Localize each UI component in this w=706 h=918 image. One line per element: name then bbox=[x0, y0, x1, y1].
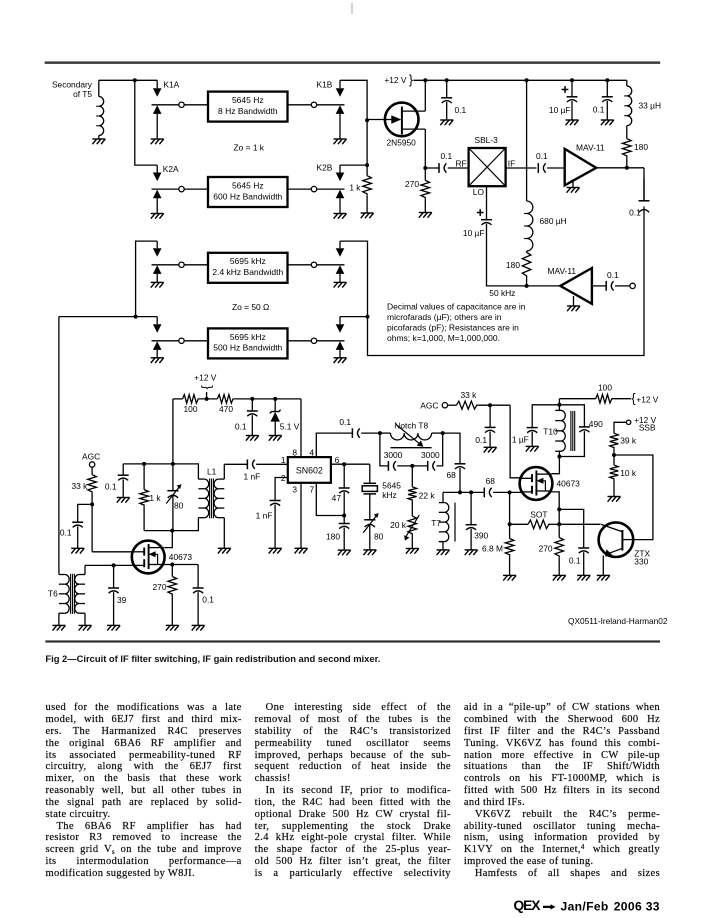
ground bbox=[151, 358, 164, 363]
wire collector bbox=[559, 523, 600, 525]
filter box 5645 Hz 600 Hz Bandwidth bbox=[208, 177, 288, 207]
wire pin7 bbox=[316, 483, 344, 516]
label ZTX bbox=[634, 548, 650, 558]
wire bbox=[448, 404, 457, 406]
resistor 1 k bbox=[363, 176, 372, 196]
wire source2 bbox=[551, 492, 559, 524]
capacitor 80 trimmer osc bbox=[363, 513, 379, 550]
wire bbox=[156, 165, 158, 172]
node bbox=[365, 163, 369, 167]
wire bbox=[572, 181, 574, 188]
label 33 k bbox=[71, 481, 88, 491]
wire drain to rail bbox=[424, 80, 426, 111]
wire IF line bbox=[506, 167, 537, 169]
wire bbox=[173, 398, 183, 400]
label AGC bbox=[82, 452, 100, 462]
node bbox=[525, 78, 529, 82]
svg-text:1: 1 bbox=[281, 455, 286, 465]
ground bbox=[334, 139, 347, 144]
ground bbox=[567, 306, 580, 311]
svg-text:MAV-11: MAV-11 bbox=[548, 266, 577, 276]
inductor notch T8 variable bbox=[391, 425, 432, 448]
wire bbox=[58, 317, 60, 574]
label LO bbox=[473, 187, 485, 197]
wire bbox=[446, 80, 448, 98]
capacitor 0.1 coupling bbox=[639, 178, 650, 212]
svg-text:SOT: SOT bbox=[530, 510, 547, 520]
label 180 bbox=[326, 531, 340, 541]
wire bbox=[224, 463, 247, 465]
node bbox=[445, 78, 449, 82]
wire bbox=[207, 392, 253, 411]
label 39 k bbox=[620, 435, 637, 445]
wire pin2 bbox=[275, 478, 288, 501]
label SBL-3 bbox=[475, 135, 499, 145]
pin label 8 bbox=[292, 447, 297, 457]
node bbox=[90, 502, 94, 506]
capacitor 0.1 vdd bbox=[247, 411, 258, 416]
wire bbox=[470, 492, 472, 524]
ground bbox=[192, 625, 205, 630]
capacitor 180 bbox=[339, 524, 350, 529]
pin label 3 bbox=[292, 485, 297, 495]
QEX logo bbox=[514, 898, 556, 913]
ground bbox=[334, 214, 347, 219]
capacitor 80 trimmer bbox=[166, 464, 181, 531]
wire bbox=[98, 80, 100, 96]
label MAV-11 bbox=[548, 266, 577, 276]
resistor 22 k bbox=[408, 487, 417, 501]
svg-text:80: 80 bbox=[374, 531, 384, 541]
svg-text:0.1: 0.1 bbox=[60, 527, 72, 537]
svg-text:Notch T8: Notch T8 bbox=[394, 420, 428, 430]
svg-text:8: 8 bbox=[292, 447, 297, 457]
node bbox=[205, 397, 209, 401]
node bbox=[366, 315, 370, 319]
wire tank bottom rail bbox=[144, 530, 199, 532]
ground bbox=[608, 497, 621, 502]
svg-text:7: 7 bbox=[310, 485, 315, 495]
label 20 k bbox=[390, 520, 407, 530]
transformer L1 bbox=[198, 464, 224, 548]
resistor 470 bbox=[217, 395, 234, 404]
capacitor 10 uF rail bbox=[562, 86, 578, 102]
ground bbox=[419, 213, 432, 218]
svg-text:20 k: 20 k bbox=[390, 520, 407, 530]
wire K1B feed bus bbox=[340, 80, 367, 175]
wire bbox=[432, 432, 443, 434]
label 10 k bbox=[620, 468, 637, 478]
label 47 bbox=[332, 493, 342, 503]
label 39 bbox=[117, 595, 127, 605]
svg-text:IF: IF bbox=[508, 158, 515, 168]
ground bbox=[440, 120, 453, 125]
wire bbox=[443, 491, 484, 493]
wire bbox=[627, 167, 644, 169]
wire LO bbox=[486, 186, 488, 220]
svg-text:600 Hz Bandwidth: 600 Hz Bandwidth bbox=[213, 191, 282, 201]
inductor T7 bbox=[439, 492, 455, 549]
svg-text:0.1: 0.1 bbox=[607, 270, 619, 280]
wire bbox=[184, 188, 208, 190]
label Notch T8 bbox=[394, 420, 428, 430]
svg-text:5.1 V: 5.1 V bbox=[280, 422, 300, 432]
resistor 270 source bbox=[168, 577, 177, 596]
svg-text:MAV-11: MAV-11 bbox=[576, 143, 605, 153]
node bbox=[311, 102, 316, 107]
relay contact row4 left fixed bbox=[152, 341, 179, 358]
label 470 bbox=[219, 404, 233, 414]
terminal AGC bbox=[89, 462, 94, 467]
wire bbox=[288, 104, 312, 106]
power +12 V right bbox=[631, 391, 658, 405]
label 40673 bbox=[557, 479, 581, 489]
wire bbox=[592, 285, 606, 287]
svg-text:33 µH: 33 µH bbox=[639, 100, 662, 110]
svg-text:LO: LO bbox=[473, 187, 485, 197]
wire pin4 bbox=[316, 433, 352, 457]
wire RF line bbox=[425, 167, 438, 169]
capacitor 39 bbox=[108, 588, 119, 593]
wire bbox=[411, 501, 413, 516]
ground bbox=[577, 575, 590, 580]
label 0.1 bbox=[202, 594, 214, 604]
label 0.1 bbox=[569, 556, 581, 566]
wire bbox=[613, 398, 631, 400]
node bbox=[458, 490, 462, 494]
label 0.1 bbox=[105, 481, 117, 491]
pin label 7 bbox=[310, 485, 315, 495]
svg-text:5695 kHz: 5695 kHz bbox=[230, 332, 266, 342]
terminal +12V SSB bbox=[626, 420, 630, 424]
wire bbox=[380, 432, 391, 434]
inductor T5 secondary bbox=[96, 97, 103, 136]
top registration tick bbox=[351, 3, 353, 14]
label 0.1 bbox=[339, 417, 351, 427]
svg-text:Zo = 50 Ω: Zo = 50 Ω bbox=[232, 302, 269, 312]
svg-text:+12 V: +12 V bbox=[194, 372, 217, 382]
wire bbox=[184, 264, 208, 266]
figure id QX0511-Ireland-Harman02 bbox=[568, 616, 668, 626]
resistor SOT bbox=[528, 520, 551, 529]
wire bbox=[613, 449, 615, 465]
svg-text:39: 39 bbox=[117, 595, 127, 605]
wire bbox=[397, 465, 427, 467]
svg-text:}: } bbox=[409, 73, 413, 87]
wire bbox=[343, 528, 345, 550]
node bbox=[179, 186, 184, 191]
node bbox=[142, 462, 146, 466]
svg-text:5645: 5645 bbox=[382, 480, 401, 490]
wire bbox=[509, 492, 511, 538]
node bbox=[508, 522, 512, 526]
wire bbox=[113, 565, 115, 588]
svg-text:5695 kHz: 5695 kHz bbox=[230, 256, 266, 266]
node bbox=[250, 397, 254, 401]
svg-text:5645 Hz: 5645 Hz bbox=[232, 95, 264, 105]
capacitor 490 bbox=[579, 427, 590, 432]
transformer T10 bbox=[555, 405, 575, 457]
wire bbox=[547, 167, 565, 169]
ground bbox=[361, 213, 374, 218]
svg-text:RF: RF bbox=[456, 158, 467, 168]
svg-text:3000: 3000 bbox=[384, 450, 403, 460]
wire bbox=[526, 278, 528, 286]
node bbox=[179, 338, 184, 343]
wire bbox=[380, 433, 388, 466]
label K2B bbox=[317, 163, 333, 173]
relay contact row4 left moving arm bbox=[153, 324, 162, 333]
ground bbox=[503, 575, 516, 580]
wire vdd to tank bbox=[172, 399, 174, 464]
svg-text:SSB: SSB bbox=[639, 423, 656, 433]
label L1 bbox=[207, 467, 217, 477]
wire bbox=[558, 399, 560, 405]
wire rows3-4 right bus bbox=[340, 207, 644, 356]
ground bbox=[117, 498, 130, 503]
wire T5 bus down to K2A bbox=[135, 80, 157, 165]
resistor 180 choke bbox=[522, 252, 531, 277]
ground bbox=[406, 549, 419, 554]
svg-text:180: 180 bbox=[326, 531, 340, 541]
label 490 bbox=[589, 419, 603, 429]
wire bbox=[361, 432, 380, 434]
wire bbox=[596, 167, 627, 169]
wire vdd to pin8 bbox=[300, 399, 302, 457]
label 0.1 bbox=[629, 208, 641, 218]
svg-text:33 k: 33 k bbox=[461, 390, 478, 400]
label 2N5950 bbox=[387, 138, 417, 148]
capacitor 1 uF bbox=[527, 428, 538, 433]
node bbox=[342, 514, 346, 518]
label 0.1 bbox=[536, 151, 548, 161]
wire bbox=[122, 464, 124, 475]
svg-text:22 k: 22 k bbox=[419, 490, 436, 500]
wire bbox=[526, 251, 528, 252]
relay contact row3 left fixed bbox=[152, 265, 179, 283]
wire bbox=[626, 126, 628, 139]
svg-text:5645 Hz: 5645 Hz bbox=[232, 180, 264, 190]
label 3000 bbox=[384, 450, 403, 460]
wire K2B feed bbox=[340, 164, 367, 166]
crystal 5645 kHz bbox=[362, 483, 377, 494]
node bbox=[112, 563, 116, 567]
node bbox=[605, 78, 609, 82]
ground bbox=[601, 120, 614, 125]
label 68 bbox=[446, 470, 456, 480]
svg-text:0.1: 0.1 bbox=[629, 208, 641, 218]
svg-text:68: 68 bbox=[486, 476, 496, 486]
label 1 k bbox=[149, 493, 161, 503]
svg-text:0.1: 0.1 bbox=[441, 151, 453, 161]
IC SN602 bbox=[288, 457, 331, 483]
node bbox=[311, 262, 316, 267]
wire bbox=[559, 509, 584, 548]
label T7 bbox=[431, 518, 441, 528]
svg-text:100: 100 bbox=[184, 404, 198, 414]
wire bbox=[437, 433, 443, 466]
wire bbox=[288, 340, 312, 342]
terminal AGC 2 bbox=[442, 403, 447, 408]
label kHz bbox=[382, 490, 396, 500]
capacitor 1 nF pin2 bbox=[270, 501, 281, 506]
svg-text:0.1: 0.1 bbox=[475, 435, 487, 445]
wire bbox=[509, 556, 511, 575]
wire bbox=[411, 535, 413, 548]
node bbox=[423, 166, 427, 170]
wire bbox=[487, 224, 561, 286]
node bbox=[557, 455, 561, 459]
label 68 bbox=[486, 476, 496, 486]
wire bbox=[571, 80, 573, 97]
transistor ZTX 330 bbox=[599, 522, 634, 557]
node bbox=[557, 507, 561, 511]
node bbox=[410, 464, 414, 468]
svg-text:Zo = 1 k: Zo = 1 k bbox=[234, 143, 265, 153]
wire source bbox=[163, 564, 198, 566]
node bbox=[342, 462, 346, 466]
wire bbox=[99, 79, 157, 81]
ground bbox=[566, 120, 579, 125]
wire bbox=[366, 195, 368, 213]
resistor 20 k variable bbox=[404, 515, 419, 541]
ground bbox=[92, 136, 105, 145]
ground bbox=[107, 625, 120, 630]
inductor 33 uH bbox=[624, 86, 632, 126]
wire bbox=[156, 317, 158, 325]
wire bbox=[551, 523, 560, 525]
svg-text:picofarads (pF); Resistances a: picofarads (pF); Resistances are in bbox=[387, 323, 519, 333]
node bbox=[179, 102, 184, 107]
svg-text:270: 270 bbox=[405, 179, 419, 189]
issue date bbox=[561, 899, 660, 913]
wire +12V to choke bbox=[526, 80, 528, 201]
capacitor 0.1 tank bbox=[118, 475, 129, 480]
wire bbox=[478, 404, 510, 406]
ground bbox=[269, 548, 282, 553]
wire bbox=[288, 264, 312, 266]
wire bbox=[606, 101, 608, 120]
wire bbox=[559, 398, 595, 400]
svg-text:Decimal values of capacitance: Decimal values of capacitance are in bbox=[387, 302, 526, 312]
pin label 2 bbox=[281, 473, 286, 483]
label 390 bbox=[474, 530, 488, 540]
svg-text:1 nF: 1 nF bbox=[244, 472, 261, 482]
wire bbox=[184, 104, 208, 106]
svg-text:of T5: of T5 bbox=[73, 89, 92, 99]
label 0.1 bbox=[607, 270, 619, 280]
label SOT bbox=[530, 510, 547, 520]
capacitor 3000 left bbox=[388, 461, 395, 471]
svg-text:3000: 3000 bbox=[421, 450, 440, 460]
relay contact row3 right fixed bbox=[317, 265, 345, 283]
wire bbox=[614, 422, 627, 433]
svg-text:1 nF: 1 nF bbox=[256, 511, 273, 521]
relay contact row3 right moving arm bbox=[336, 248, 345, 257]
wire bbox=[532, 405, 559, 428]
svg-text:}: } bbox=[201, 385, 215, 389]
wire source down bbox=[424, 129, 426, 168]
label T6 bbox=[48, 589, 58, 599]
resistor 39 k bbox=[610, 433, 619, 449]
wire bbox=[626, 80, 628, 86]
capacitor 0.1 IF coupling bbox=[538, 163, 545, 173]
label 100 bbox=[598, 382, 612, 392]
label 1 k bbox=[349, 183, 361, 193]
wire bbox=[339, 317, 341, 325]
label 80 bbox=[174, 500, 184, 510]
label Secondary of T5 bbox=[52, 79, 93, 99]
node bbox=[311, 186, 316, 191]
wire base bbox=[614, 455, 653, 540]
filter box 5695 kHz 500 Hz Bandwidth bbox=[208, 328, 288, 358]
label +12 V SSB bbox=[634, 415, 656, 433]
label 80 bbox=[374, 531, 384, 541]
wire bbox=[493, 491, 522, 493]
svg-text:1 µF: 1 µF bbox=[512, 435, 529, 445]
svg-text:QX0511-Ireland-Harman02: QX0511-Ireland-Harman02 bbox=[568, 616, 668, 626]
node bbox=[134, 315, 138, 319]
relay contact row1 right moving arm bbox=[336, 88, 345, 97]
filter box 5695 kHz 2.4 kHz Bandwidth bbox=[208, 253, 288, 283]
wire bbox=[510, 523, 528, 525]
wire bbox=[122, 479, 124, 497]
resistor 33 k bbox=[88, 475, 97, 494]
capacitor 0.1 rail bypass 2 bbox=[602, 97, 613, 102]
svg-text:SN602: SN602 bbox=[296, 466, 323, 476]
label 270 bbox=[405, 179, 419, 189]
label 100 bbox=[184, 404, 198, 414]
wire gate1 lead bbox=[85, 564, 134, 566]
label 22 k bbox=[419, 490, 436, 500]
wire bbox=[559, 431, 584, 456]
svg-text:39 k: 39 k bbox=[620, 435, 637, 445]
svg-text:3: 3 bbox=[292, 485, 297, 495]
capacitor 47 bbox=[339, 488, 350, 493]
label Zo = 1 k bbox=[234, 143, 265, 153]
label MAV-11 bbox=[576, 143, 605, 153]
svg-text:K2B: K2B bbox=[317, 163, 333, 173]
transistor 2N5950 JFET bbox=[385, 103, 425, 137]
wire bbox=[369, 464, 371, 483]
capacitor 0.1 source bypass bbox=[193, 588, 204, 593]
capacitor 0.1 pin4 bbox=[352, 428, 359, 438]
ground bbox=[334, 358, 347, 363]
node bbox=[557, 403, 561, 407]
svg-text:K1B: K1B bbox=[317, 80, 333, 90]
wire bbox=[256, 463, 288, 465]
svg-text:490: 490 bbox=[589, 419, 603, 429]
wire bbox=[339, 165, 341, 172]
power +12 V bbox=[384, 73, 413, 87]
svg-text:40673: 40673 bbox=[557, 479, 581, 489]
svg-text:10 k: 10 k bbox=[620, 468, 637, 478]
svg-text:180: 180 bbox=[634, 142, 648, 152]
relay contact row2 left fixed bbox=[152, 189, 179, 213]
label K1A bbox=[163, 80, 179, 90]
svg-text:2.4 kHz Bandwidth: 2.4 kHz Bandwidth bbox=[212, 267, 283, 277]
node bbox=[378, 431, 382, 435]
wire gate2 riser bbox=[510, 405, 521, 478]
svg-text:470: 470 bbox=[219, 404, 233, 414]
ground bbox=[526, 446, 539, 451]
ground bbox=[334, 282, 347, 287]
svg-text:+12 V: +12 V bbox=[636, 395, 658, 405]
filter box 5645 Hz 8 Hz Bandwidth bbox=[208, 92, 288, 122]
svg-text:0.1: 0.1 bbox=[339, 417, 351, 427]
svg-text:ohms; k=1,000, M=1,000,000.: ohms; k=1,000, M=1,000,000. bbox=[387, 333, 500, 343]
label 0.1 bbox=[475, 435, 487, 445]
